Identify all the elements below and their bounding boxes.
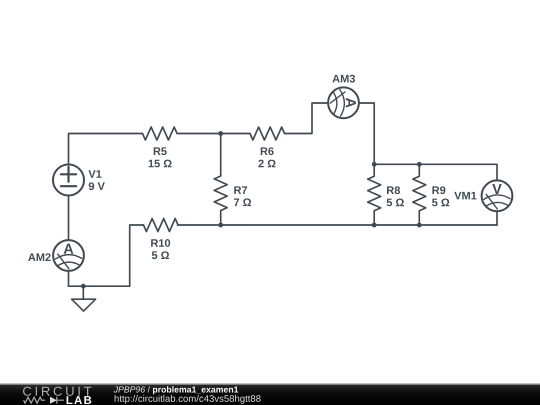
resistor R5 — [143, 127, 178, 140]
node dot R9 bottom — [417, 223, 422, 228]
label R7 — [234, 186, 247, 194]
wire node B to VM1 top — [374, 164, 497, 180]
footer title problema1_examen1 — [153, 386, 238, 394]
label R10 — [151, 239, 170, 247]
logo resistor glyph — [24, 397, 45, 403]
node dot R8 bottom — [372, 223, 377, 228]
value 5 ohm R8 — [387, 199, 404, 207]
ground — [72, 286, 96, 311]
wire V1 to AM2 — [68, 196, 70, 241]
ammeter AM2 — [53, 240, 84, 271]
wire V1 top to R5 — [69, 134, 143, 165]
voltmeter VM1 — [482, 180, 513, 211]
footer title JPBP96 — [114, 386, 145, 392]
value 5 ohm R9 — [432, 199, 449, 207]
label AM2 — [28, 253, 51, 261]
label R9 — [432, 186, 445, 194]
label R8 — [387, 186, 400, 194]
wire node A to R6 — [221, 133, 250, 135]
value 9 V — [89, 182, 105, 190]
node dot R7 bottom — [218, 223, 223, 228]
resistor R10 — [144, 219, 179, 232]
node dot ground — [81, 284, 86, 289]
voltage source V1 — [53, 165, 84, 196]
logo LAB — [67, 396, 92, 404]
node dot B AM3/R8 top — [372, 162, 377, 167]
label VM1 — [454, 192, 476, 200]
wire AM2 to ground rail — [68, 271, 70, 286]
resistor R8 — [368, 164, 381, 225]
ammeter AM3 — [328, 87, 359, 118]
wire R10 left, corner down to ground rail — [69, 225, 144, 286]
wire VM1 bottom to bottom rail — [496, 211, 498, 225]
node dot A R5/R6/R7 — [218, 131, 223, 136]
label AM3 — [332, 75, 355, 83]
label R5 — [154, 147, 167, 155]
resistor R6 — [250, 127, 285, 140]
resistor R9 — [413, 164, 426, 225]
wire R6 to AM3 step-up — [285, 103, 329, 134]
logo CIRCUIT — [23, 387, 91, 396]
value 7 ohm — [234, 198, 251, 206]
label R6 — [261, 147, 274, 155]
value 15 ohm — [149, 160, 172, 168]
footer url — [115, 395, 261, 404]
logo diode glyph — [50, 397, 57, 404]
value 2 ohm — [258, 160, 275, 168]
resistor R7 — [214, 134, 227, 226]
wire R5 to node A — [177, 133, 221, 135]
label V1 — [88, 170, 101, 178]
footer bar — [0, 384, 540, 405]
footer title slash — [148, 386, 150, 392]
value 5 ohm R10 — [152, 251, 169, 259]
node dot R9 top — [417, 162, 422, 167]
wire AM3 right, down to node B — [359, 103, 374, 164]
wire bottom rail — [178, 224, 498, 226]
